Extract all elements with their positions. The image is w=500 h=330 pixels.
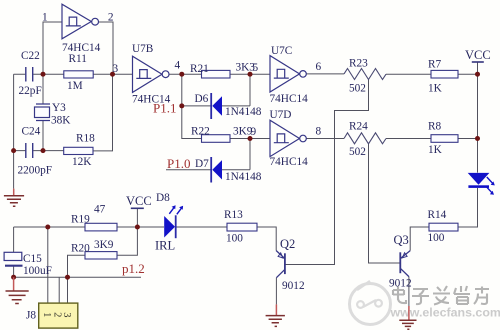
diode D7 1N4148 <box>211 157 222 183</box>
resistor R7 1K <box>431 70 458 78</box>
svg-text:2: 2 <box>52 312 63 317</box>
wire R22 right <box>230 138 270 140</box>
wire VCC rail right <box>477 62 479 173</box>
wire U7C out to R23 <box>306 73 344 75</box>
svg-text:1M: 1M <box>67 80 83 92</box>
wire C22 row <box>14 73 133 75</box>
ground left rail <box>4 189 24 207</box>
node R22/D7/U7D in <box>248 136 253 141</box>
capacitor C24 2200pF <box>26 143 33 158</box>
svg-text:R22: R22 <box>191 126 210 138</box>
ground Q3 <box>399 306 416 329</box>
wire C24 row <box>14 150 64 152</box>
VCC symbol mid <box>131 207 144 209</box>
svg-text:12K: 12K <box>72 156 92 168</box>
ground Q2 <box>266 304 285 326</box>
svg-text:3: 3 <box>61 312 72 317</box>
wire U7D out to R24 <box>306 138 344 140</box>
svg-text:R24: R24 <box>349 121 368 133</box>
svg-text:Q3: Q3 <box>394 233 409 247</box>
node R20/p1.2/J8 pin3 <box>65 275 70 280</box>
svg-text:P1.0: P1.0 <box>167 156 190 171</box>
svg-text:502: 502 <box>349 83 366 95</box>
svg-text:8: 8 <box>316 126 322 138</box>
wire D7 row P1.0 stub <box>166 139 250 170</box>
svg-text:4: 4 <box>175 60 181 72</box>
capacitor C15 100uF polarized <box>4 252 22 265</box>
node R7/VCC rail <box>475 72 480 77</box>
svg-text:VCC: VCC <box>126 194 152 208</box>
LED D8 IRL <box>164 205 183 238</box>
wire J8 pin1 <box>47 227 49 303</box>
svg-text:2200pF: 2200pF <box>18 165 53 177</box>
node Y3/C24/R18 <box>41 148 46 153</box>
watermark logo circle <box>350 281 391 325</box>
svg-text:9: 9 <box>251 126 257 138</box>
LED output indicator <box>468 173 495 195</box>
wire R19 right to D8 <box>117 226 227 228</box>
svg-text:P1.1: P1.1 <box>153 100 176 115</box>
resistor R24 zigzag 502 <box>344 133 386 144</box>
svg-text:VCC: VCC <box>465 48 491 62</box>
node rail/C24 <box>11 148 16 153</box>
wire C15 bottom lead <box>13 267 15 278</box>
svg-text:3K9: 3K9 <box>94 239 114 251</box>
svg-text:9012: 9012 <box>282 280 305 292</box>
op-amp U7C inverter 74HC14 <box>270 56 306 92</box>
diode D6 1N4148 <box>211 93 222 119</box>
wire U7A input <box>43 22 62 74</box>
resistor R21 3K3 <box>202 70 231 78</box>
op-amp U7B inverter 74HC14 <box>133 56 170 92</box>
wire R20 riser to VCC node <box>117 227 137 255</box>
wire Q2 collector down <box>275 278 277 305</box>
svg-text:9012: 9012 <box>389 278 412 290</box>
node C15/gnd <box>11 275 16 280</box>
svg-text:Y3: Y3 <box>52 102 66 114</box>
node U7B out pin4 <box>179 72 184 77</box>
resistor R18 12K <box>64 147 93 154</box>
node C22/R11/Y3 <box>41 72 46 77</box>
wire crystal column <box>42 74 44 150</box>
wire R24 to R8 <box>386 138 478 140</box>
svg-text:C15: C15 <box>23 253 42 265</box>
wire J8 pin3 <box>67 277 69 303</box>
svg-text:U7D: U7D <box>270 109 292 121</box>
node R21/D6/U7C in <box>248 72 253 77</box>
node R19/J8 pin1 <box>45 225 50 230</box>
svg-text:p1.2: p1.2 <box>122 261 145 276</box>
resistor R8 1K <box>431 135 458 143</box>
node VCC/R19/D8/R20 <box>135 225 140 230</box>
wire Q3 collector down <box>408 277 410 306</box>
svg-text:C24: C24 <box>22 126 41 138</box>
wire R13 to Q2 emitter <box>257 227 276 251</box>
svg-text:100: 100 <box>226 233 243 245</box>
svg-text:1K: 1K <box>428 144 443 156</box>
svg-text:100uF: 100uF <box>23 265 52 277</box>
wire P1.1 vertical <box>182 74 202 138</box>
wire Q2 base riser from R23 <box>285 80 369 265</box>
svg-text:5: 5 <box>253 62 259 74</box>
svg-text:R21: R21 <box>190 63 209 75</box>
wire D6 row <box>182 74 250 106</box>
resistor R19 47 <box>85 223 117 231</box>
resistor R14 100 <box>429 223 458 231</box>
resistor R23 zigzag 502 <box>344 69 386 80</box>
watermark chinese text 电子发烧友 <box>393 286 489 305</box>
resistor R11 1M <box>64 71 93 78</box>
wire node A row left <box>14 226 85 228</box>
svg-text:R23: R23 <box>349 58 368 70</box>
wire left rail x13.6 <box>13 74 15 188</box>
crystal Y3 38K <box>35 104 51 121</box>
wire LED cathode to R14 <box>458 188 478 227</box>
svg-text:www.elecfans.com: www.elecfans.com <box>390 306 500 320</box>
svg-text:R18: R18 <box>76 133 95 145</box>
VCC symbol right <box>472 61 484 63</box>
svg-text:R13: R13 <box>224 209 243 221</box>
resistor R13 100 <box>227 223 257 231</box>
svg-text:R14: R14 <box>428 209 447 221</box>
capacitor C22 22pF <box>26 67 33 82</box>
svg-text:74HC14: 74HC14 <box>270 93 309 105</box>
svg-text:R19: R19 <box>71 214 90 226</box>
wire R18 riser <box>93 74 113 151</box>
op-amp U7A inverter 74HC14 <box>62 4 99 39</box>
svg-text:1: 1 <box>41 312 52 317</box>
svg-text:47: 47 <box>94 204 106 216</box>
svg-text:1N4148: 1N4148 <box>225 171 262 183</box>
svg-text:C22: C22 <box>21 50 40 62</box>
wire Q3 base riser from R24 <box>369 144 400 263</box>
wire C15 top lead <box>13 227 15 252</box>
svg-text:1K: 1K <box>428 83 443 95</box>
svg-text:1: 1 <box>42 12 48 24</box>
resistor R22 3K9 <box>202 135 231 143</box>
resistor R20 3K9 <box>85 252 117 259</box>
svg-text:D8: D8 <box>156 192 170 204</box>
wire U7B output node <box>169 73 270 75</box>
node R11/pin2/R18 <box>110 72 115 77</box>
svg-text:74HC14: 74HC14 <box>270 156 309 168</box>
svg-text:22pF: 22pF <box>19 85 42 97</box>
wire VCC mid drop <box>136 208 138 227</box>
svg-text:1N4148: 1N4148 <box>225 106 262 118</box>
wire R14 left to Q3 <box>410 227 429 251</box>
svg-text:38K: 38K <box>51 115 71 127</box>
wire U7A output <box>99 22 113 74</box>
transistor Q2 9012 <box>276 251 285 278</box>
svg-text:J8: J8 <box>26 310 36 322</box>
wire R23 to R7 <box>386 73 478 75</box>
node P1.1/D6 <box>179 103 184 108</box>
svg-text:74HC14: 74HC14 <box>62 42 101 54</box>
svg-text:3: 3 <box>113 63 119 75</box>
connector J8 <box>39 303 78 328</box>
svg-text:D6: D6 <box>195 93 209 105</box>
svg-text:R8: R8 <box>428 121 442 133</box>
svg-text:U7C: U7C <box>271 45 292 57</box>
svg-text:100: 100 <box>428 232 445 244</box>
wire J8 pin2 <box>58 277 60 303</box>
svg-text:502: 502 <box>349 146 366 158</box>
transistor Q3 9012 <box>400 251 410 277</box>
op-amp U7D inverter 74HC14 <box>270 120 306 156</box>
svg-text:R20: R20 <box>71 243 90 255</box>
svg-text:D7: D7 <box>195 158 209 170</box>
svg-text:R7: R7 <box>428 59 442 71</box>
svg-text:U7B: U7B <box>132 43 153 55</box>
svg-text:R11: R11 <box>69 53 87 65</box>
node R8/VCC rail <box>475 136 480 141</box>
svg-text:6: 6 <box>316 61 322 73</box>
ground C15 <box>6 277 29 303</box>
wire R20 left drop <box>68 255 86 277</box>
svg-text:IRL: IRL <box>155 239 175 253</box>
svg-text:2: 2 <box>108 12 114 24</box>
wire p1.2 row <box>14 276 141 278</box>
svg-text:Q2: Q2 <box>280 237 295 251</box>
